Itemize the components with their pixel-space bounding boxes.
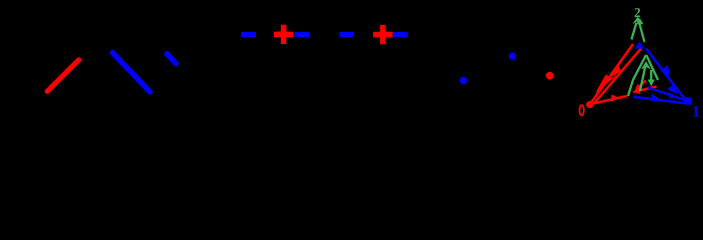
svg-text:1: 1 <box>692 104 700 121</box>
svg-text:2: 2 <box>634 5 641 20</box>
